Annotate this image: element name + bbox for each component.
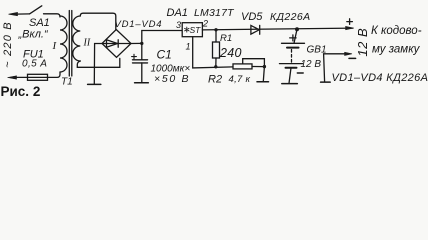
- capacitor C1 plates: [133, 59, 148, 61]
- bridge internal diode cathode bar: [117, 40, 119, 47]
- arrow output minus: [345, 52, 352, 55]
- svg-text:Т1: Т1: [61, 77, 73, 88]
- common bar R2: [257, 81, 269, 83]
- battery GB1 cell2 long plate: [280, 63, 303, 65]
- svg-text:I: I: [52, 40, 58, 52]
- bridge rectifier VD1-VD4 diamond: [102, 30, 131, 58]
- svg-text:R1: R1: [220, 33, 232, 44]
- svg-text:VD1–VD4 КД226А.: VD1–VD4 КД226А.: [332, 72, 428, 84]
- wire bridge minus to common: [94, 44, 102, 85]
- resistor R1 bottom lead: [215, 58, 217, 67]
- common bar output: [321, 81, 331, 83]
- svg-text:12 В: 12 В: [355, 28, 370, 57]
- node R1 bottom junction: [214, 65, 217, 68]
- svg-text:му замку: му замку: [372, 44, 421, 56]
- wire bridge plus: [131, 42, 142, 44]
- wire secondary bottom: [77, 58, 120, 67]
- node GB1 top: [295, 27, 299, 31]
- battery GB1 minus sign: [297, 72, 303, 74]
- svg-text:240: 240: [219, 46, 242, 60]
- wire mains top lead: [17, 13, 30, 15]
- diode VD5 triangle: [251, 25, 259, 34]
- wire top rail DA1 pin2 to output: [202, 28, 353, 30]
- svg-text:0,5 А: 0,5 А: [22, 59, 47, 70]
- resistor R1 body: [213, 42, 220, 58]
- arrow output plus: [346, 26, 354, 29]
- wire C1 positive lead: [141, 43, 143, 59]
- capacitor C1 plus sign: [132, 54, 137, 59]
- battery GB1 cell2 short plate: [286, 67, 297, 69]
- common bar bridge: [88, 83, 101, 85]
- regulator DA1 box: [182, 23, 202, 37]
- wire R2 junction to common: [263, 67, 264, 82]
- wire secondary top to bridge: [80, 13, 116, 29]
- common bar C1: [135, 82, 149, 84]
- svg-text:C1: C1: [157, 48, 172, 62]
- arrow to mains top: [9, 12, 18, 15]
- common bar GB1: [282, 83, 298, 85]
- battery GB1 bottom lead: [289, 68, 291, 84]
- svg-text:~ 220 В: ~ 220 В: [2, 21, 14, 68]
- node bridge plus junction: [140, 42, 143, 45]
- resistor R2 body: [233, 64, 252, 69]
- node R2 right junction: [263, 65, 266, 68]
- transformer T1 primary winding I: [60, 16, 67, 72]
- bridge internal diode lead: [103, 43, 130, 45]
- battery GB1 cell1 short plate: [287, 47, 299, 49]
- battery GB1 dashed link: [291, 50, 293, 63]
- svg-text:КД226А: КД226А: [270, 11, 311, 23]
- battery GB1 cell1 long plate: [282, 42, 305, 44]
- battery GB1 top lead: [294, 29, 297, 43]
- fuse FU1 left wire: [16, 76, 28, 78]
- svg-text:×50 В: ×50 В: [154, 73, 190, 85]
- svg-text:II: II: [83, 37, 91, 48]
- svg-text:VD1–VD4: VD1–VD4: [115, 19, 163, 30]
- wire DA1 pin1 adjust: [193, 37, 233, 68]
- resistor R2 right lead: [252, 66, 264, 68]
- svg-text:12 В: 12 В: [301, 59, 322, 70]
- output minus sign: [349, 57, 356, 59]
- transformer T1 secondary winding II: [73, 16, 80, 61]
- DA1 star mark: [185, 27, 189, 32]
- wire C1 negative lead: [141, 63, 143, 83]
- svg-text:4,7 к: 4,7 к: [229, 74, 251, 85]
- svg-text:SA1: SA1: [29, 17, 50, 29]
- svg-text:К кодово-: К кодово-: [371, 25, 422, 37]
- wire fuse to primary bottom: [48, 72, 61, 77]
- node R1 top: [214, 28, 217, 31]
- wire output minus: [324, 54, 347, 82]
- bridge internal diode triangle: [107, 40, 118, 47]
- svg-text:LM317T: LM317T: [194, 7, 235, 19]
- svg-text:„Вкл.“: „Вкл.“: [18, 29, 49, 41]
- switch SA1 lever: [30, 6, 42, 14]
- diode VD5 cathode bar: [259, 25, 261, 34]
- svg-text:3: 3: [176, 20, 181, 30]
- arrow to mains bottom: [8, 76, 17, 79]
- wire riser to DA1 pin3: [142, 31, 182, 44]
- output plus sign: [347, 19, 353, 25]
- transformer core: [68, 11, 70, 77]
- svg-text:Рис. 2: Рис. 2: [1, 84, 41, 99]
- svg-text:GB1: GB1: [307, 45, 327, 56]
- svg-text:2: 2: [202, 19, 208, 29]
- resistor R1 top lead: [215, 30, 217, 42]
- resistor R2 wiper link: [243, 59, 265, 67]
- svg-text:VD5: VD5: [241, 11, 263, 23]
- svg-text:DA1: DA1: [167, 7, 188, 19]
- fuse FU1 through wire: [28, 76, 48, 78]
- battery GB1 plus sign: [290, 35, 296, 41]
- svg-text:R2: R2: [208, 74, 222, 86]
- svg-text:1: 1: [186, 42, 191, 52]
- svg-text:ST: ST: [190, 25, 202, 35]
- wire switch to transformer primary: [44, 14, 61, 17]
- fuse FU1 body: [28, 74, 48, 80]
